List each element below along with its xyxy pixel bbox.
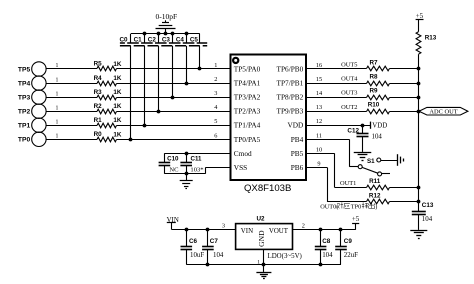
svg-text:TP5: TP5 [18, 66, 31, 73]
net label 2 [302, 223, 305, 230]
wire pin10 to OUT1 [306, 153, 367, 187]
IC pin name Cmod [234, 149, 252, 158]
svg-text:R12: R12 [369, 192, 381, 199]
svg-text:13: 13 [316, 104, 322, 111]
junction C5 to TP5 wire [198, 67, 202, 71]
svg-text:VSS: VSS [234, 163, 247, 172]
svg-text:PB4: PB4 [291, 135, 304, 144]
svg-text:5: 5 [214, 118, 217, 125]
svg-text:+5: +5 [352, 216, 360, 223]
capacitor C13 [412, 202, 434, 230]
wire pin11 to S1 [306, 139, 358, 166]
wire R11 to bus [390, 187, 419, 189]
svg-text:OUT3: OUT3 [341, 90, 357, 97]
svg-text:22uF: 22uF [344, 252, 358, 259]
pin number 14 [316, 90, 323, 97]
regulator U2 body [236, 216, 302, 261]
pin number 3 [214, 90, 217, 97]
svg-text:OUT2: OUT2 [341, 104, 357, 111]
wire TP2 to resistor R2 [46, 111, 97, 113]
capacitor C12 [347, 125, 382, 152]
pin number 10 [316, 146, 322, 153]
junction OUT3 on bus [417, 96, 421, 100]
resistor R0 [94, 131, 122, 142]
IC pin name TP0/PA5 [234, 135, 261, 144]
svg-text:1K: 1K [113, 117, 122, 124]
IC pin name TP8/PB2 [277, 93, 304, 102]
IC pin name TP9/PB3 [277, 107, 304, 116]
wire TP0 to resistor R0 [46, 139, 97, 141]
svg-text:TP2/PA3: TP2/PA3 [234, 107, 261, 116]
svg-text:4: 4 [214, 104, 218, 111]
wire pin13 to R10 [306, 111, 367, 113]
svg-text:10uF: 10uF [190, 252, 204, 259]
svg-text:C6: C6 [189, 238, 198, 245]
svg-text:R9: R9 [369, 88, 378, 95]
junction C3 on cap bus [171, 32, 175, 36]
capacitor C10 [159, 153, 180, 173]
svg-text:C5: C5 [190, 36, 199, 43]
svg-text:TP6/PB0: TP6/PB0 [277, 65, 304, 74]
resistor R7 [367, 59, 390, 70]
net label OUT0 (TP0 output) [320, 202, 377, 210]
wire R12 to bus [390, 201, 419, 203]
resistor R12 [367, 192, 390, 203]
pin number 1 of U2 GND [257, 259, 260, 265]
capacitor bank bottom plates [120, 45, 207, 47]
net label 1 on TP4 wire [56, 77, 59, 83]
test point TP1 [18, 118, 46, 132]
svg-text:1: 1 [257, 259, 260, 265]
svg-text:1K: 1K [113, 131, 122, 138]
net label OUT2 [341, 104, 357, 111]
power +5 bottom [352, 216, 360, 230]
wire TP5 to resistor R5 [46, 68, 97, 70]
svg-text:PB6: PB6 [291, 163, 304, 172]
svg-text:TP1: TP1 [18, 123, 31, 130]
svg-text:R2: R2 [94, 103, 103, 110]
junction C2 to TP2 wire [157, 110, 161, 114]
svg-text:TP3/PA2: TP3/PA2 [234, 93, 261, 102]
wire +5 bus vertical [418, 54, 420, 202]
power VDD symbol [371, 122, 388, 130]
ground below C12 [354, 153, 372, 161]
svg-text:C4: C4 [176, 36, 185, 43]
resistor R9 [367, 88, 390, 100]
junction OUT0 on bus [417, 200, 421, 204]
svg-text:1: 1 [56, 105, 59, 111]
capacitor bank top plates [120, 42, 207, 44]
junction Cmod ground rail [185, 172, 189, 176]
svg-text:U2: U2 [256, 216, 265, 223]
resistor R3 [94, 89, 122, 100]
capacitor C11 [180, 153, 203, 173]
pin number 9 [317, 160, 320, 167]
svg-text:1K: 1K [113, 89, 122, 96]
svg-text:103*: 103* [190, 167, 203, 174]
junction OUT2 on bus [417, 110, 421, 114]
wire pin16 to R7 [306, 68, 367, 70]
power VIN [167, 217, 179, 230]
wire R0 to IC pin 6 [117, 139, 231, 141]
wire U2 GND pin [263, 249, 265, 264]
svg-text:OUT1: OUT1 [340, 180, 356, 187]
capacitor C4 label [176, 36, 185, 43]
svg-text:TP3: TP3 [18, 95, 31, 102]
svg-text:VDD: VDD [287, 121, 303, 130]
svg-text:TP0/PA5: TP0/PA5 [234, 135, 261, 144]
svg-text:R10: R10 [368, 102, 380, 109]
net label 1 on TP1 wire [56, 119, 59, 125]
port ADC OUT [419, 107, 468, 115]
junction C3 to TP3 wire [171, 96, 175, 100]
svg-text:TP4: TP4 [18, 81, 31, 88]
wire R4 to IC pin 2 [117, 83, 231, 85]
IC pin name PB4 [291, 135, 304, 144]
net label 1 on TP3 wire [56, 91, 59, 97]
capacitor C3 leads [172, 34, 174, 97]
IC pin name TP1/PA4 [234, 121, 261, 130]
junction C4 to TP4 wire [185, 82, 189, 86]
resistor R4 [94, 75, 122, 86]
wire pin8 VSS [206, 167, 231, 173]
svg-text:6: 6 [214, 132, 217, 139]
svg-text:LDO(3~5V): LDO(3~5V) [268, 253, 302, 260]
svg-text:R8: R8 [369, 74, 378, 81]
capacitor bus wire [131, 33, 200, 35]
svg-text:TP2: TP2 [18, 109, 31, 116]
junction C7 bottom [206, 263, 210, 267]
resistor R10 [367, 102, 390, 114]
IC pin name TP7/PB1 [277, 79, 304, 88]
test point TP5 [18, 62, 46, 76]
wire pin15 to R8 [306, 83, 367, 85]
svg-text:1: 1 [56, 77, 59, 83]
capacitor C1 leads [144, 34, 146, 125]
svg-text:R7: R7 [369, 59, 378, 66]
svg-text:TP9/PB3: TP9/PB3 [277, 107, 304, 116]
svg-text:3: 3 [214, 90, 217, 97]
wire TP4 to resistor R4 [46, 83, 97, 85]
svg-text:QX8F103B: QX8F103B [244, 183, 291, 194]
svg-text:OUT5: OUT5 [341, 62, 357, 69]
wire R2 to IC pin 4 [117, 111, 231, 113]
svg-text:C8: C8 [322, 238, 331, 245]
junction C7 top [206, 228, 210, 232]
pin number 12 [316, 118, 322, 125]
wire pin7 Cmod to C10 [164, 153, 230, 155]
junction C6 top [185, 228, 189, 232]
svg-text:R13: R13 [425, 35, 437, 42]
junction U2 GND [262, 263, 266, 267]
svg-text:C9: C9 [344, 238, 353, 245]
capacitor C0 leads [130, 34, 132, 140]
pin number 15 [316, 76, 322, 83]
svg-text:R1: R1 [94, 117, 103, 124]
ground below C13 [410, 231, 427, 239]
ground below U2 [256, 265, 271, 279]
svg-text:OUT0(: OUT0( [320, 203, 338, 210]
pin number 13 [316, 104, 322, 111]
capacitor C5 leads [199, 34, 201, 69]
svg-text:Cmod: Cmod [234, 149, 252, 158]
wire R10 to +5 bus [390, 111, 419, 113]
svg-text:1: 1 [56, 119, 59, 125]
resistor R11 [367, 178, 390, 190]
svg-text:OUT4: OUT4 [341, 76, 358, 83]
trimmer capacitor 0-10pF [155, 12, 177, 34]
svg-text:1: 1 [214, 62, 217, 69]
IC pin name PB6 [291, 163, 304, 172]
wire R5 to IC pin 1 [117, 68, 231, 70]
svg-text:R11: R11 [369, 178, 381, 185]
svg-text:1: 1 [56, 63, 59, 69]
test point TP3 [18, 90, 46, 104]
resistor R8 [367, 74, 390, 86]
svg-text:10: 10 [316, 146, 322, 153]
wire pin12 VDD [306, 125, 370, 127]
net label OUT1 [340, 180, 356, 187]
svg-text:VIN: VIN [241, 228, 253, 235]
pin number 5 [214, 118, 217, 125]
pin number 11 [316, 132, 322, 139]
resistor R5 [94, 61, 122, 71]
net label OUT5 [341, 62, 357, 69]
resistor R13 [416, 32, 437, 55]
capacitor C8 [315, 230, 333, 265]
junction C9 top [339, 228, 343, 232]
svg-text:C3: C3 [162, 36, 171, 43]
svg-text:1K: 1K [113, 103, 122, 110]
svg-text:12: 12 [316, 118, 322, 125]
svg-text:C1: C1 [134, 36, 143, 43]
pin number 1 [214, 62, 217, 69]
junction trimmer to cap bus [164, 32, 168, 36]
test point TP2 [18, 104, 46, 118]
junction C2 on cap bus [157, 32, 161, 36]
svg-text:C2: C2 [148, 36, 157, 43]
svg-text:3: 3 [222, 223, 225, 230]
svg-text:TP8/PB2: TP8/PB2 [277, 93, 304, 102]
svg-text:VOUT: VOUT [269, 228, 289, 235]
svg-text:C13: C13 [422, 202, 434, 209]
capacitor C7 [202, 230, 224, 265]
svg-text:TP1/PA4: TP1/PA4 [234, 121, 261, 130]
junction C8 top [319, 228, 323, 232]
capacitor C2 leads [158, 34, 160, 111]
junction C11 top [185, 152, 189, 156]
svg-text:C10: C10 [167, 156, 179, 163]
svg-text:11: 11 [316, 132, 322, 139]
net label 1 on TP0 wire [56, 134, 59, 140]
net label 1 on TP5 wire [56, 63, 59, 69]
wire R3 to IC pin 3 [117, 97, 231, 99]
svg-text:104: 104 [322, 252, 333, 259]
wire R8 to +5 bus [390, 83, 419, 85]
svg-text:TP0: TP0 [18, 137, 31, 144]
wire pin9 to R12 [306, 167, 367, 201]
svg-text:15: 15 [316, 76, 322, 83]
svg-text:1: 1 [56, 134, 59, 140]
pin number 16 [316, 62, 322, 69]
svg-text:104: 104 [213, 252, 224, 259]
svg-text:S1: S1 [367, 158, 375, 165]
wire +5 to R13 [418, 19, 420, 31]
junction OUT4 on bus [417, 82, 421, 86]
wire pin14 to R9 [306, 97, 367, 99]
IC pin name PB5 [291, 149, 304, 158]
wire S1 to ground [381, 160, 398, 162]
net label 1 on TP2 wire [56, 105, 59, 111]
pin number 4 [214, 104, 218, 111]
capacitor C5 label [190, 36, 199, 43]
capacitor C4 leads [186, 34, 188, 83]
junction C4 on cap bus [185, 32, 189, 36]
svg-text:TP7/PB1: TP7/PB1 [277, 79, 304, 88]
svg-text:C0: C0 [119, 36, 128, 43]
svg-text:TP4/PA1: TP4/PA1 [234, 79, 261, 88]
junction OUT1 on bus [417, 186, 421, 190]
svg-text:C12: C12 [347, 127, 359, 134]
pin number 6 [214, 132, 217, 139]
capacitor C6 [181, 230, 205, 265]
svg-text:1: 1 [56, 91, 59, 97]
IC pin name TP2/PA3 [234, 107, 261, 116]
svg-text:104: 104 [422, 216, 433, 223]
wire C10/C11 ground rail [164, 173, 205, 175]
svg-text:VDD: VDD [372, 123, 387, 130]
svg-text:1K: 1K [113, 61, 122, 68]
IC pin name TP3/PA2 [234, 93, 261, 102]
svg-text:GND: GND [257, 230, 266, 247]
wire TP3 to resistor R3 [46, 97, 97, 99]
svg-text:TP0: TP0 [351, 203, 362, 210]
net label OUT4 [341, 76, 358, 83]
IC pin name VDD [287, 121, 303, 130]
svg-text:TP5/PA0: TP5/PA0 [234, 65, 261, 74]
wire U2 VOUT rail [293, 229, 356, 231]
svg-text:1K: 1K [113, 75, 122, 82]
svg-text:14: 14 [316, 90, 323, 97]
capacitor C3 label [162, 36, 171, 43]
power +5 top [416, 13, 424, 20]
IC pin name TP4/PA1 [234, 79, 261, 88]
svg-text:104: 104 [372, 134, 383, 141]
svg-text:R4: R4 [94, 75, 103, 82]
capacitor C9 [335, 230, 358, 265]
svg-text:ADC OUT: ADC OUT [429, 109, 457, 116]
wire VIN rail [172, 229, 236, 231]
wire TP1 to resistor R1 [46, 125, 97, 127]
capacitor C1 label [134, 36, 143, 43]
wire ground rail bottom [186, 264, 341, 266]
net label OUT3 [341, 90, 357, 97]
svg-text:R0: R0 [94, 131, 103, 138]
junction C1 on cap bus [143, 32, 147, 36]
svg-text:PB5: PB5 [291, 149, 304, 158]
capacitor C0 label [119, 36, 128, 43]
svg-text:C11: C11 [190, 156, 202, 163]
switch S1 [358, 158, 381, 176]
pin number 2 [214, 76, 217, 83]
junction C8 bottom [319, 263, 323, 267]
resistor R1 [94, 117, 122, 128]
svg-text:R5: R5 [94, 61, 103, 68]
svg-text:): ) [375, 203, 377, 210]
IC name QX8F103B [244, 183, 291, 194]
IC pin name TP6/PB0 [277, 65, 304, 74]
test point TP0 [18, 132, 46, 146]
svg-text:C7: C7 [210, 238, 219, 245]
svg-text:0-10pF: 0-10pF [155, 12, 177, 21]
net label 3 [222, 223, 225, 230]
ground below C10/C11 [180, 174, 193, 189]
capacitor C2 label [148, 36, 157, 43]
wire R1 to IC pin 5 [117, 125, 231, 127]
wire R9 to +5 bus [390, 97, 419, 99]
svg-text:2: 2 [302, 223, 305, 230]
junction C12 tap [361, 124, 365, 128]
svg-text:9: 9 [317, 160, 320, 167]
resistor R2 [94, 103, 122, 114]
svg-text:R3: R3 [94, 89, 103, 96]
test point TP4 [18, 76, 46, 90]
IC pin name VSS [234, 163, 247, 172]
junction OUT5 on bus [417, 67, 421, 71]
IC U1 QX8F103B body [231, 55, 307, 181]
wire R7 to +5 bus [390, 68, 419, 70]
svg-text:NC: NC [169, 167, 179, 174]
junction C0 to TP0 wire [129, 138, 133, 142]
ground sideways at S1 [398, 154, 404, 166]
wire S1 throw stub [382, 173, 390, 175]
IC pin name TP5/PA0 [234, 65, 261, 74]
junction C1 to TP1 wire [143, 124, 147, 128]
svg-text:2: 2 [214, 76, 217, 83]
